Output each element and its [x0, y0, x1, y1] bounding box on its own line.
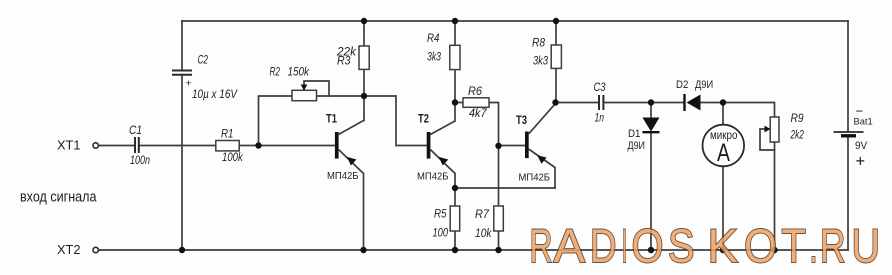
svg-text:МП42Б: МП42Б [417, 171, 449, 183]
svg-text:.: . [810, 219, 818, 272]
svg-text:C1: C1 [129, 125, 142, 137]
svg-text:U: U [852, 219, 881, 272]
resistor R1 [216, 141, 239, 151]
svg-text:+: + [856, 153, 866, 171]
junction top rail at R4 [452, 18, 458, 24]
svg-text:T3: T3 [516, 113, 527, 127]
svg-text:K: K [708, 219, 739, 272]
svg-text:S: S [668, 219, 695, 272]
svg-text:T1: T1 [326, 111, 337, 125]
svg-text:3k3: 3k3 [533, 53, 548, 67]
wire meter top lead [722, 103, 724, 125]
svg-text:A: A [554, 219, 586, 272]
svg-text:+: + [186, 78, 192, 90]
resistor R9 wiper arrow [765, 126, 771, 133]
wire T2 collector vertical [454, 103, 456, 122]
wire R6 left lead [455, 102, 463, 104]
transistor T2 [427, 121, 455, 174]
wire R7 bottom lead [498, 231, 500, 250]
svg-text:R7: R7 [475, 209, 490, 221]
svg-text:R: R [820, 219, 846, 272]
svg-text:O: O [744, 219, 777, 272]
wire R3 bottom lead to node [363, 70, 365, 97]
junction ground at D1 [648, 247, 654, 253]
junction node C3-D1-D2 [648, 99, 654, 105]
wire D2 to meter node [701, 102, 724, 104]
terminal XT1 [93, 143, 98, 148]
wire T1 emitter vertical [363, 174, 365, 251]
wire C2 bottom to ground rail [181, 75, 183, 250]
wire emitter line T2-T3 [455, 187, 555, 189]
resistor R8 [551, 45, 561, 68]
junction node R4-R6-T2 collector [452, 99, 458, 105]
diode D2 [685, 94, 701, 111]
wire R3 top lead [363, 21, 365, 46]
svg-text:XT2: XT2 [57, 242, 81, 257]
svg-text:вход сигнала: вход сигнала [20, 188, 97, 205]
wire R2 wiper link [304, 81, 329, 96]
wire interstage T1 collector to T2 base [364, 96, 427, 146]
wire XT1 input line [99, 145, 335, 147]
wire meter bottom lead [722, 167, 724, 251]
wire R8 top lead [555, 21, 557, 45]
svg-text:R4: R4 [427, 33, 439, 45]
svg-text:Д9И: Д9И [695, 79, 713, 91]
transistor T3 [525, 104, 555, 168]
svg-text:R6: R6 [468, 86, 483, 98]
wire C3 to D1 node [604, 102, 651, 104]
wire T3 base lead [499, 145, 525, 147]
junction ground at T1 emitter [360, 247, 366, 253]
svg-text:10k: 10k [475, 226, 492, 240]
wire right battery vertical top [847, 21, 849, 132]
wire R8 node to C3 [556, 102, 598, 104]
svg-text:10µ x 16V: 10µ x 16V [192, 87, 238, 101]
svg-text:R9: R9 [791, 113, 805, 125]
battery Bat1 [834, 132, 864, 136]
svg-text:D: D [590, 219, 617, 272]
svg-text:I: I [622, 219, 628, 272]
watermark RADIOSKOT.RU [530, 219, 881, 272]
diode D1 [643, 118, 660, 133]
meter PA1 microammeter [703, 125, 745, 167]
resistor R5 [450, 206, 460, 231]
wire R2 left lead [259, 96, 293, 146]
junction ground at R5 [452, 247, 458, 253]
svg-text:100n: 100n [130, 153, 150, 167]
svg-text:A: A [717, 139, 730, 167]
junction node D2-meter-R9 [720, 99, 726, 105]
svg-text:T: T [782, 219, 807, 272]
resistor R9 rheostat body [770, 117, 779, 142]
wire R4 top lead [454, 21, 456, 45]
wire top supply rail [182, 20, 848, 22]
wire R9 wiper link [760, 129, 775, 150]
svg-text:1n: 1n [595, 110, 605, 124]
resistor R3 [359, 46, 369, 69]
junction ground at meter [720, 247, 726, 253]
svg-text:R3: R3 [337, 55, 351, 67]
wire T3 emitter vertical [554, 168, 556, 189]
resistor R4 [450, 45, 460, 69]
svg-text:C2: C2 [198, 54, 209, 66]
junction node R2-R3-T1 collector [361, 93, 367, 99]
wire R6 right lead down to R7 [489, 103, 499, 207]
wire R8 bottom lead [555, 69, 557, 103]
wire R5 top lead [454, 188, 456, 206]
svg-text:R: R [530, 219, 553, 272]
svg-text:Bat1: Bat1 [854, 117, 873, 128]
svg-text:9V: 9V [855, 140, 868, 152]
junction node T2 emitter R5 [452, 185, 458, 191]
resistor R6 [463, 98, 489, 108]
svg-text:МП42Б: МП42Б [327, 170, 359, 182]
terminal XT2 [93, 247, 98, 252]
wire T3 collector vertical [554, 103, 556, 105]
svg-text:100k: 100k [222, 150, 244, 164]
transistor T1 [335, 121, 364, 174]
capacitor C3 [599, 95, 603, 110]
svg-text:2k2: 2k2 [790, 127, 804, 141]
wire meter node to R9 [723, 103, 775, 118]
svg-text:D2: D2 [676, 79, 688, 91]
svg-text:T2: T2 [418, 111, 429, 125]
wire T2 emitter vertical [454, 174, 456, 189]
junction top rail at R8 [553, 18, 559, 24]
svg-text:O: O [632, 219, 664, 272]
wire R4 bottom lead to node [454, 70, 456, 103]
junction ground at R9 [771, 247, 777, 253]
capacitor C2 [172, 71, 192, 75]
junction ground at R7 [495, 247, 501, 253]
wire D1 node to D2 [651, 102, 684, 104]
svg-text:XT1: XT1 [57, 138, 81, 153]
svg-text:Д9И: Д9И [628, 140, 646, 152]
wire bottom ground rail [99, 249, 849, 251]
svg-text:4k7: 4k7 [469, 106, 488, 120]
svg-text:C3: C3 [594, 82, 606, 94]
junction node R8-C3-T3 collector [552, 99, 558, 105]
wire D1 cathode to ground [650, 133, 652, 250]
wire R9 bottom lead [774, 142, 776, 250]
resistor R2 wiper arrow [301, 85, 308, 91]
svg-text:R8: R8 [532, 37, 546, 49]
svg-text:150k: 150k [288, 66, 311, 78]
resistor R2 potentiometer body [292, 90, 317, 100]
svg-text:D1: D1 [628, 128, 641, 140]
resistor R7 [494, 206, 504, 231]
capacitor C1 [135, 137, 139, 153]
junction node R1-R2 [255, 142, 261, 148]
wire R2 right lead [317, 95, 365, 97]
junction node T3 base [495, 143, 501, 149]
junction ground at C2 [179, 247, 185, 253]
wire D1 branch vertical top [650, 103, 652, 118]
svg-text:100: 100 [433, 225, 449, 239]
svg-text:R2: R2 [270, 66, 281, 78]
svg-text:R5: R5 [434, 209, 447, 221]
wire R5 bottom lead [454, 231, 456, 250]
junction top rail at R3 [361, 18, 367, 24]
wire right battery vertical bottom [847, 137, 849, 251]
svg-text:3k3: 3k3 [427, 50, 441, 64]
svg-text:R1: R1 [221, 129, 233, 141]
wire T1 collector vertical [363, 96, 365, 121]
svg-text:МП42Б: МП42Б [519, 172, 551, 184]
wire left vertical to C2 [181, 21, 183, 70]
